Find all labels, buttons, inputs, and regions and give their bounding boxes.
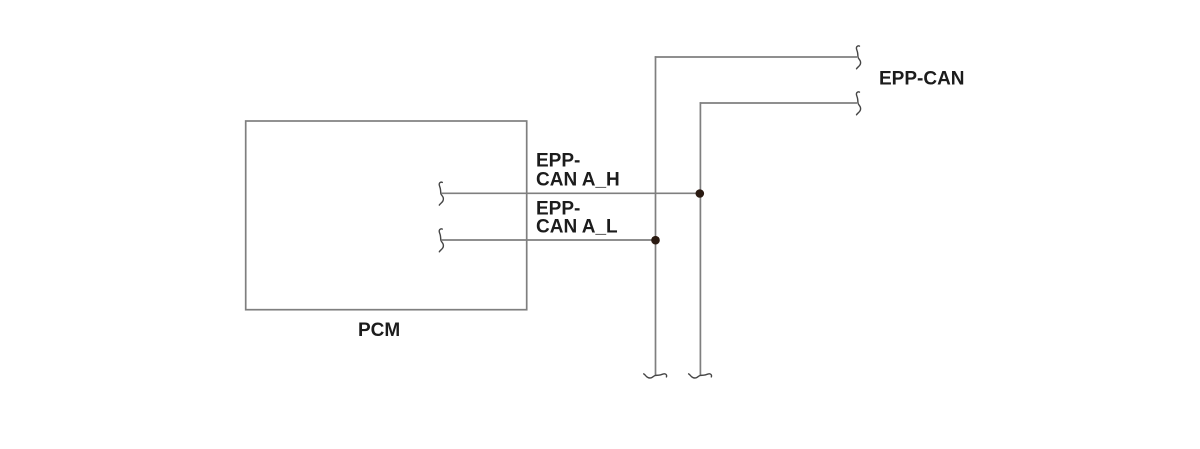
node: junction of EPP-CAN A_L with bus line 1 <box>651 236 660 245</box>
wire EPP-CAN A_L (horizontal from PCM to bus 1) <box>441 239 655 241</box>
break symbol at PCM pin of wire EPP-CAN A_H <box>439 182 443 205</box>
svg-text:PCM: PCM <box>358 320 400 341</box>
break symbol at right end of bus line 1 top segment <box>856 46 860 69</box>
wire bus line 2 top horizontal segment <box>700 102 857 104</box>
wire bus line 1 top horizontal segment <box>655 56 857 58</box>
component PCM (control module box) <box>246 121 527 310</box>
break symbol at bottom end of bus line 2 <box>689 374 712 378</box>
wire EPP-CAN A_H (horizontal from PCM to bus 2) <box>441 192 700 194</box>
break symbol at PCM pin of wire EPP-CAN A_L <box>439 229 443 252</box>
svg-text:EPP-CAN: EPP-CAN <box>879 68 965 89</box>
svg-text:CAN A_L: CAN A_L <box>536 217 618 238</box>
break symbol at bottom end of bus line 1 <box>644 374 667 378</box>
svg-text:EPP-: EPP- <box>536 151 580 172</box>
break symbol at right end of bus line 2 top segment <box>856 92 860 115</box>
wire bus line 2 vertical segment <box>699 102 701 375</box>
node: junction of EPP-CAN A_H with bus line 2 <box>696 189 705 198</box>
svg-text:CAN A_H: CAN A_H <box>536 170 620 191</box>
wire bus line 1 vertical segment <box>655 56 657 375</box>
